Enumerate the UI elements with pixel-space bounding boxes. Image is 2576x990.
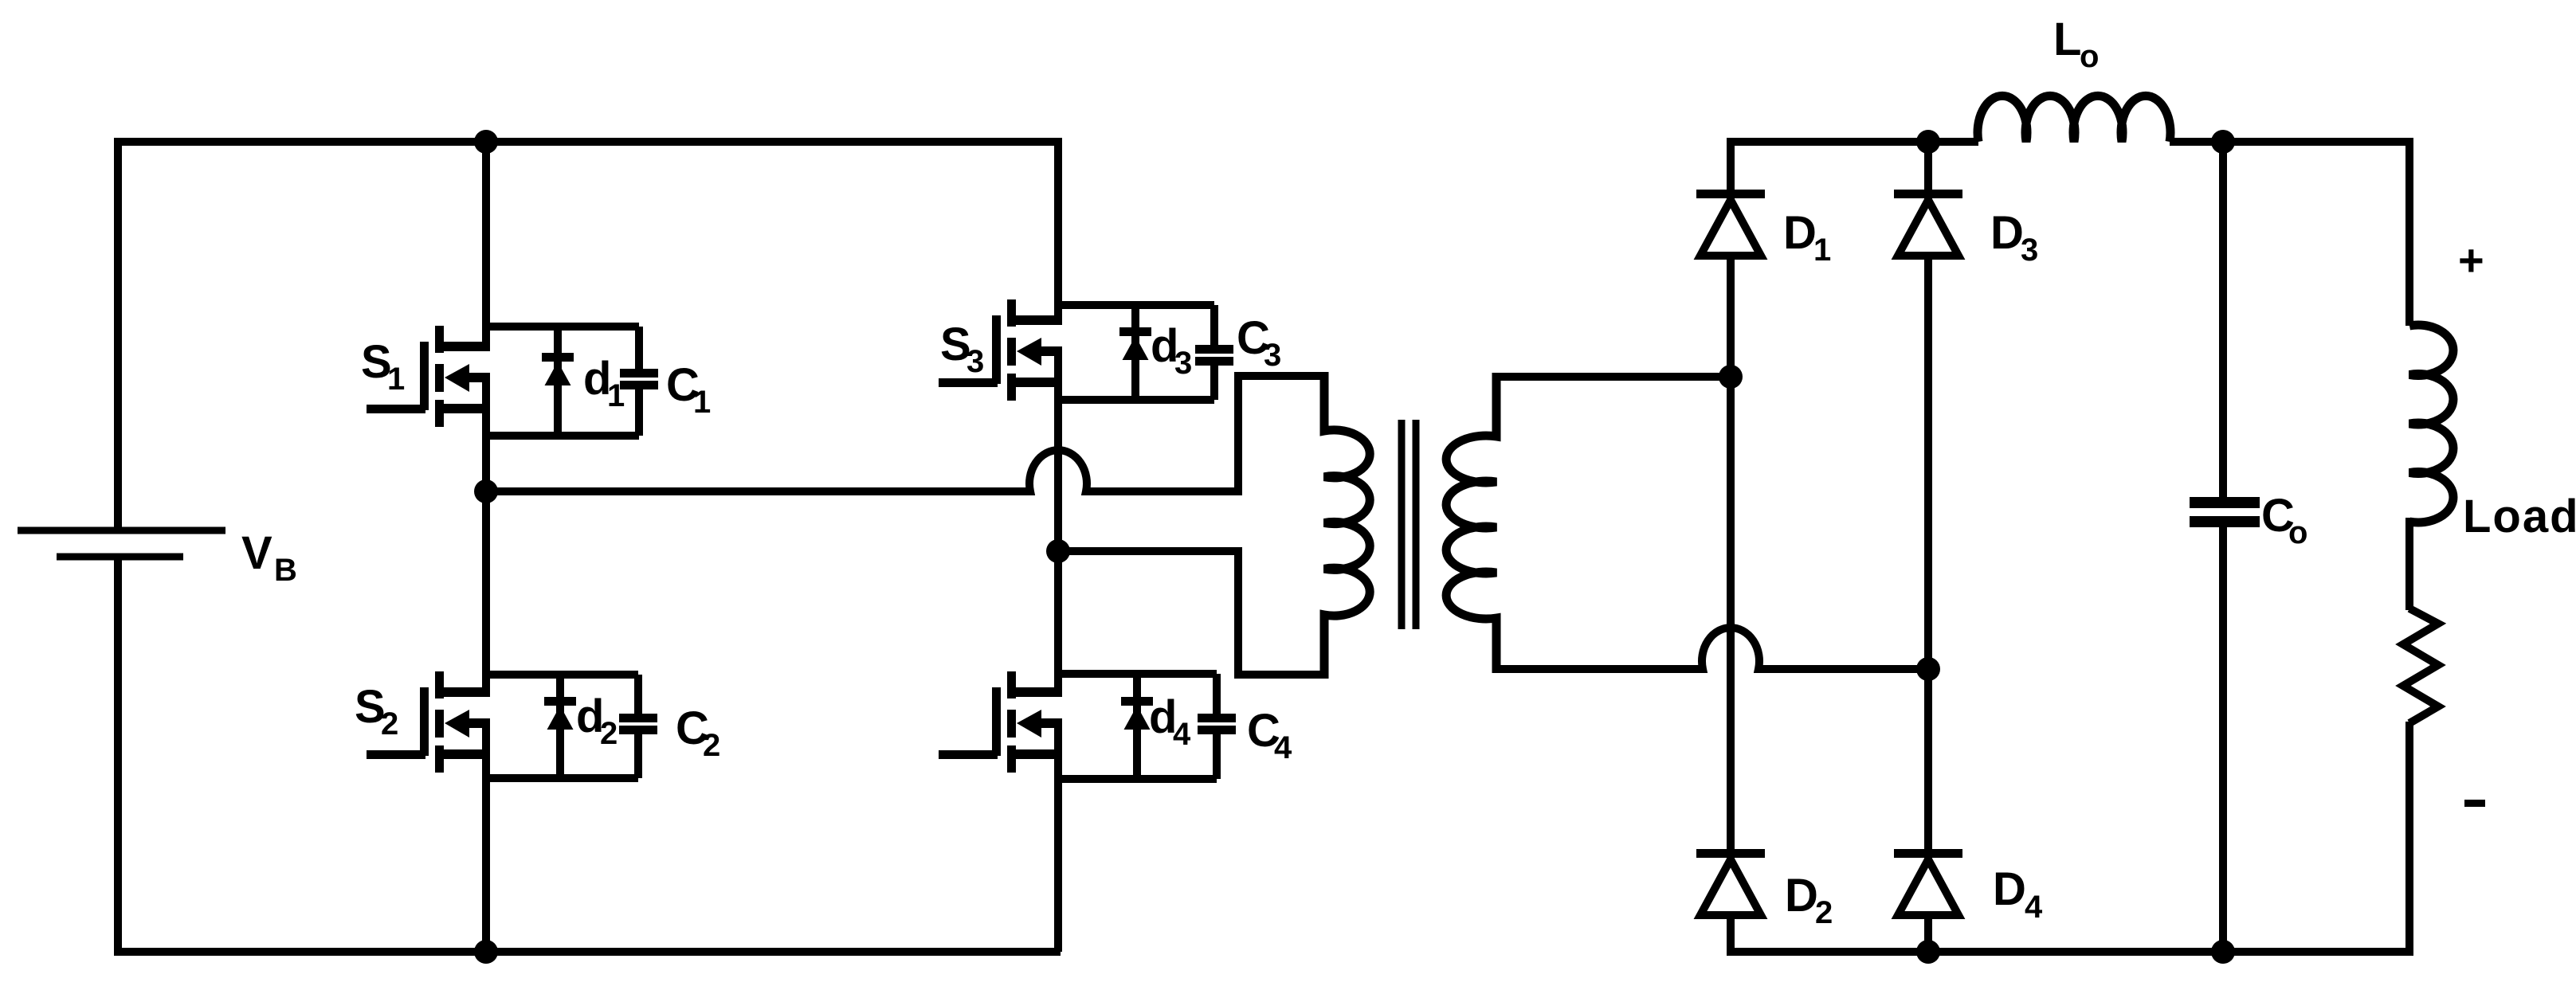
wire S1 snubber box bottom — [486, 432, 639, 440]
svg-text:Load: Load — [2463, 491, 2576, 542]
label d3 — [1151, 320, 1192, 381]
wire S4 snubber box top — [1058, 670, 1217, 678]
wire C1 branch upper — [635, 327, 643, 369]
wire load resistor to bottom rail — [2405, 722, 2413, 956]
wire mid node A to S2 drain — [482, 491, 490, 697]
battery VB negative plate — [57, 554, 183, 561]
label S2 — [355, 681, 398, 742]
svg-text:B: B — [274, 553, 297, 588]
svg-text:3: 3 — [1264, 338, 1281, 373]
diode D1 — [1696, 190, 1765, 256]
svg-text:D: D — [1990, 207, 2024, 259]
capacitor C2 — [619, 714, 657, 734]
node bottom rail / Co — [2211, 940, 2235, 964]
wire primary top lead — [1238, 376, 1324, 495]
node top rail / D3 / Lo — [1916, 130, 1940, 154]
label S3 — [940, 319, 984, 379]
svg-text:o: o — [2080, 39, 2099, 74]
wire S4 snubber box bottom — [1058, 775, 1217, 783]
diode D3 — [1894, 190, 1962, 256]
wire C4 branch upper — [1213, 674, 1221, 714]
label D1 — [1783, 207, 1831, 268]
svg-text:1: 1 — [693, 385, 711, 420]
wire D3-D4 branch — [1924, 138, 1932, 952]
body diode d1 — [542, 353, 574, 385]
label d2 — [576, 691, 618, 751]
wire battery top to top rail — [114, 142, 122, 527]
svg-text:V: V — [241, 527, 272, 579]
svg-text:4: 4 — [1173, 717, 1191, 752]
label D2 — [1785, 870, 1833, 930]
wire C4 branch lower — [1213, 734, 1221, 779]
svg-text:o: o — [2288, 515, 2307, 550]
wire C1 branch lower — [635, 389, 643, 436]
svg-text:L: L — [2053, 14, 2081, 65]
transformer core — [1402, 420, 1416, 629]
svg-text:3: 3 — [966, 344, 984, 379]
capacitor C4 — [1198, 714, 1236, 734]
wire Co to bottom rail — [2219, 527, 2227, 952]
wire top rail — [114, 138, 1058, 146]
wire secondary top lead — [1496, 373, 1731, 381]
svg-text:1: 1 — [387, 362, 405, 397]
label minus — [2464, 800, 2485, 807]
inductor Lo — [1978, 96, 2170, 142]
label d1 — [583, 353, 625, 413]
node secondary bottom / D3-D4 — [1916, 657, 1940, 681]
svg-text:2: 2 — [1815, 895, 1833, 930]
load resistor — [2403, 608, 2438, 723]
node bottom rail / S2 source — [474, 940, 498, 964]
label Co — [2261, 490, 2307, 550]
svg-text:1: 1 — [1813, 233, 1831, 268]
wire top rail to S3 drain — [1054, 138, 1062, 325]
wire output node to Co — [2219, 142, 2227, 497]
wire C3 branch upper — [1210, 305, 1218, 345]
wire bottom rail — [114, 948, 1061, 956]
body diode d3 — [1119, 327, 1151, 360]
wire rectifier bottom rail — [1727, 948, 2413, 956]
MOSFET S2 — [367, 671, 490, 773]
wire S2 snubber box bottom — [486, 774, 638, 782]
wire top rail to S1 drain — [482, 142, 490, 351]
wire S4 source to bottom rail — [1054, 719, 1062, 952]
wire S1 snubber box top — [486, 323, 639, 331]
svg-text:D: D — [1993, 863, 2026, 915]
wire primary bottom lead — [1238, 547, 1324, 675]
wire S3 snubber box top — [1058, 301, 1214, 309]
body diode d2 — [544, 697, 576, 730]
label d4 — [1149, 691, 1191, 752]
wire secondary bottom lead (hop over D1 leg) — [1496, 628, 1928, 669]
capacitor Co — [2190, 497, 2260, 527]
svg-text:3: 3 — [2021, 233, 2038, 268]
wire output right rail down — [2405, 138, 2413, 326]
transformer secondary winding — [1446, 373, 1496, 673]
wire mid node B to primary — [1058, 547, 1238, 555]
svg-text:3: 3 — [1174, 346, 1192, 381]
wire C2 branch upper — [634, 675, 642, 714]
wire D1-D2 branch — [1727, 138, 1735, 952]
wire S3 source to mid node B — [1054, 347, 1062, 551]
svg-text:D: D — [1783, 207, 1817, 259]
label VB — [241, 527, 297, 588]
label Lo — [2053, 14, 2099, 74]
svg-text:+: + — [2458, 235, 2484, 285]
wire S1 source to mid node A — [482, 374, 490, 491]
svg-text:2: 2 — [600, 716, 618, 751]
MOSFET S4 — [939, 671, 1062, 773]
svg-text:4: 4 — [1274, 730, 1292, 765]
label C4 — [1247, 705, 1292, 765]
label C3 — [1237, 312, 1281, 373]
wire load inductor to resistor — [2405, 518, 2413, 610]
node output / Co top — [2211, 130, 2235, 154]
wire d4 branch — [1133, 674, 1141, 779]
svg-text:2: 2 — [381, 706, 398, 742]
battery VB positive plate — [18, 527, 225, 534]
wire S3 snubber box bottom — [1058, 396, 1214, 404]
MOSFET S3 — [939, 299, 1062, 401]
wire mid node A to primary (hop over leg B) — [486, 450, 1238, 491]
transformer primary winding — [1324, 372, 1370, 679]
wire d3 branch — [1131, 305, 1139, 400]
node bottom rail / D4 — [1916, 940, 1940, 964]
capacitor C1 — [620, 369, 658, 389]
svg-text:4: 4 — [2025, 890, 2043, 925]
wire battery bottom to bottom rail — [114, 560, 122, 952]
label S1 — [361, 336, 405, 397]
label C2 — [676, 702, 720, 763]
wire S2 snubber box top — [486, 671, 638, 679]
diode D2 — [1696, 849, 1765, 915]
label C1 — [666, 359, 711, 420]
node mid A (S1-S2 junction) — [474, 479, 498, 503]
wire mid node B to S4 drain — [1054, 551, 1062, 697]
MOSFET S1 — [367, 326, 490, 427]
body diode d4 — [1121, 697, 1153, 730]
node mid B (S3-S4 junction) — [1046, 539, 1070, 563]
diode D4 — [1894, 849, 1962, 915]
wire C3 branch lower — [1210, 366, 1218, 400]
svg-text:D: D — [1785, 870, 1818, 922]
wire rectifier top rail — [1727, 138, 1978, 146]
svg-text:2: 2 — [703, 728, 720, 763]
label D4 — [1993, 863, 2043, 925]
wire d1 branch — [554, 327, 562, 436]
wire C2 branch lower — [634, 734, 642, 778]
node top rail / S1 drain — [474, 130, 498, 154]
wire Lo to output corner — [2170, 138, 2409, 146]
node secondary top / D1 — [1719, 365, 1743, 389]
label D3 — [1990, 207, 2038, 268]
wire S2 source to bottom rail — [482, 719, 490, 952]
load inductor — [2409, 325, 2453, 522]
wire d2 branch — [556, 675, 564, 778]
capacitor C3 — [1195, 345, 1233, 366]
